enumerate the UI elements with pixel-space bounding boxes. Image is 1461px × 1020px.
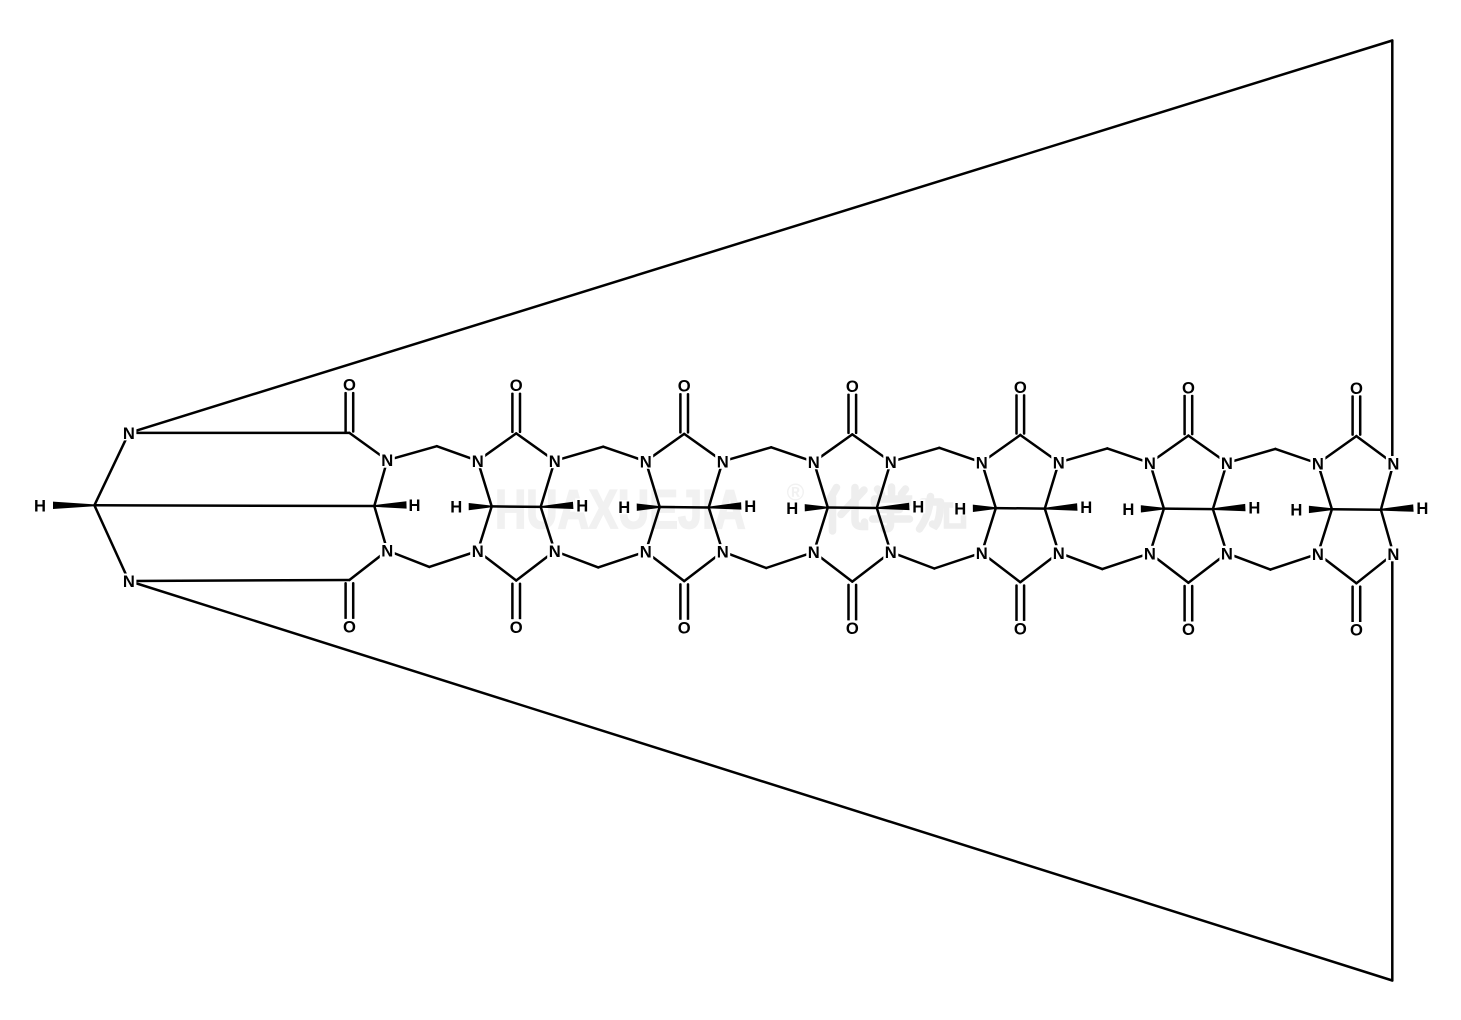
atom H leftmost [33, 496, 47, 515]
atom N3ul [638, 452, 653, 471]
bond C5b-N5ur [1045, 462, 1059, 508]
svg-text:N: N [1144, 544, 1156, 563]
svg-text:N: N [1221, 454, 1233, 473]
bond N7ll-C7b [1318, 554, 1357, 584]
atom N4ur [883, 453, 898, 472]
methylene bridge N3ur-CH2-N4ul (top) [723, 447, 772, 461]
atom H4l [785, 499, 799, 518]
atom O2b [509, 618, 524, 637]
methylene bridge N2ur-CH2-N3ul (top) [555, 447, 604, 461]
bond C3a-N3ll [646, 507, 660, 552]
atom O7t [1349, 379, 1364, 398]
svg-text:O: O [846, 377, 859, 396]
bond C6b-N6ur [1213, 463, 1227, 509]
svg-text:H: H [744, 497, 756, 516]
bond N3ul-C3t [646, 434, 685, 461]
atom N5ur [1051, 453, 1066, 472]
bond N4ur-C4t [852, 434, 891, 461]
bond N6ll-C6b [1150, 553, 1189, 583]
svg-text:N: N [885, 543, 897, 562]
atom O1t [342, 375, 357, 394]
bond C2b-N2ur [541, 461, 555, 507]
atom N6ll [1142, 544, 1157, 563]
atom N2ll [470, 542, 485, 561]
atom N2ur [547, 452, 562, 471]
svg-text:N: N [1312, 455, 1324, 474]
double bond C6b=O6b [1183, 586, 1186, 621]
svg-text:N: N [549, 542, 561, 561]
bond N4ll-C4b [814, 552, 853, 582]
bond N7ur-C7t [1356, 436, 1393, 463]
atom H4r [911, 498, 925, 517]
atom O6b [1181, 620, 1196, 639]
bond N7ul-C7t [1318, 436, 1357, 463]
double bond C4b=O4b [847, 585, 850, 620]
bond N3ur-C3t [684, 434, 723, 461]
wedge bond C4b-H (right stereo H) [877, 503, 910, 510]
svg-text:N: N [1387, 545, 1399, 564]
svg-text:H: H [576, 496, 588, 515]
svg-text:O: O [1014, 620, 1027, 639]
bond C4b-N4lr [877, 508, 891, 552]
bond C1b(CH)-N1bu [374, 460, 387, 506]
svg-text:H: H [1122, 500, 1134, 519]
bond C2b-N2lr [541, 507, 555, 551]
bond C6a-N6ll [1150, 509, 1164, 554]
methylene bridge N2lr-CH2-N3ll (bottom) [555, 551, 599, 567]
svg-text:N: N [976, 544, 988, 563]
svg-text:N: N [472, 452, 484, 471]
svg-text:N: N [549, 452, 561, 471]
svg-text:H: H [409, 496, 421, 515]
atom H1b [408, 496, 422, 515]
bond N2ll-C2b [478, 551, 517, 581]
double bond C7t=O7t [1351, 396, 1354, 434]
atom N7lr [1386, 545, 1401, 564]
svg-text:O: O [1350, 379, 1363, 398]
atom H6l [1121, 500, 1135, 519]
wedge bond C6a-H (left stereo H) [1141, 505, 1164, 512]
bond C3a-C3b (CH-CH) [660, 506, 709, 509]
atom O4t [845, 377, 860, 396]
bond C5a-C5b (CH-CH) [996, 507, 1045, 510]
bond C4a-N4ll [814, 508, 828, 553]
svg-text:O: O [846, 619, 859, 638]
svg-text:O: O [343, 375, 356, 394]
bond N2lr-C2b [516, 551, 555, 581]
atom N2lr [547, 542, 562, 561]
bond C1b-N1bl [349, 551, 387, 581]
bond N7lr-C7b [1356, 554, 1393, 584]
svg-text:N: N [123, 424, 135, 443]
atom H2r [575, 496, 589, 515]
bond C5b-N5lr [1045, 509, 1059, 553]
atom N3lr [715, 543, 730, 562]
wedge bond C7a-H (left stereo H) [1309, 506, 1332, 513]
bond N3ll-C3b [646, 552, 685, 582]
svg-text:O: O [510, 376, 523, 395]
bond C6a-C6b (CH-CH) [1164, 507, 1213, 510]
wedge bond C5b-H (right stereo H) [1045, 503, 1078, 510]
bond N1u-C1t (long top bond) [129, 432, 350, 435]
atom N6ur [1219, 454, 1234, 473]
bond C1a-C1b (long central CH-CH bond) [94, 504, 374, 507]
svg-text:N: N [381, 542, 393, 561]
bond bottom-right corner up to N7lr (right border, lower segment) [1391, 554, 1394, 981]
bond C2a-C2b (CH-CH) [492, 505, 541, 508]
atom N7ur [1386, 455, 1401, 474]
double bond C5t=O5t [1015, 395, 1018, 433]
svg-text:H: H [1416, 499, 1428, 518]
wedge bond C2a-H (left stereo H) [469, 503, 492, 510]
methylene bridge N1bu-CH2-N2ul (top) [387, 446, 437, 460]
bond C7b-N7lr [1381, 510, 1394, 554]
atom N1bl [380, 542, 395, 561]
atom O2t [509, 376, 524, 395]
svg-text:N: N [1144, 454, 1156, 473]
methylene bridge N3lr-CH2-N4ll (bottom) [723, 552, 767, 568]
double bond C2t=O2t [511, 394, 514, 432]
svg-text:N: N [123, 572, 135, 591]
atom O5t [1013, 378, 1028, 397]
svg-text:N: N [717, 452, 729, 471]
bond C2a-N2ll [478, 506, 492, 551]
bond C5a-N5ul [982, 462, 996, 508]
atom N1u [121, 424, 136, 443]
bond N2ul-C2t [478, 433, 517, 460]
bond C7a-N7ll [1318, 509, 1332, 554]
wedge bond C3b-H (right stereo H) [709, 502, 742, 509]
atom H5r [1079, 498, 1093, 517]
atom H7r [1415, 499, 1429, 518]
methylene bridge N6lr-CH2-N7ll (bottom) [1227, 553, 1271, 569]
svg-text:N: N [976, 453, 988, 472]
bond C6b-N6lr [1213, 509, 1227, 553]
atom N4ul [806, 453, 821, 472]
double bond C3t=O3t [679, 394, 682, 432]
bond C1a-N1u [94, 433, 128, 505]
bond N1u to top-right corner (wrap-around methylene arm, top slant) [129, 41, 1392, 433]
methylene bridge N6ur-CH2-N7ul (top) [1227, 449, 1276, 463]
bond N4ul-C4t [814, 434, 853, 461]
double bond C7b=O7b [1351, 587, 1354, 622]
methylene bridge N5lr-CH2-N6ll (bottom) [1059, 553, 1103, 569]
atom H6r [1247, 499, 1261, 518]
svg-text:N: N [717, 543, 729, 562]
atom O5b [1013, 620, 1028, 639]
wedge bond C7b-H (right stereo H) [1381, 504, 1414, 511]
methylene bridge N4ur-CH2-N5ul (top) [891, 448, 940, 462]
bond C3a-N3ul [646, 461, 660, 507]
svg-text:N: N [885, 453, 897, 472]
bond top-right corner down to N7ur (right border, upper segment) [1391, 41, 1394, 464]
svg-text:O: O [343, 617, 356, 636]
svg-text:N: N [1312, 545, 1324, 564]
svg-text:H: H [786, 499, 798, 518]
bond C1b(CH)-N1bl [374, 506, 387, 551]
methylene bridge N5ur-CH2-N6ul (top) [1059, 448, 1108, 462]
atom O7b [1349, 621, 1364, 640]
atom O1b [342, 617, 357, 636]
bond C1t-N1bu [349, 433, 387, 460]
watermark HUAXUEJIA (R) hua-xue-jia, light gray [495, 479, 805, 540]
svg-text:N: N [808, 453, 820, 472]
bond C6a-N6ul [1150, 463, 1164, 509]
atom O3b [677, 618, 692, 637]
bond N3lr-C3b [684, 552, 723, 582]
bond C4b-N4ur [877, 462, 891, 508]
atom N4ll [806, 543, 821, 562]
bond N5lr-C5b [1020, 553, 1059, 583]
double bond C3b=O3b [679, 584, 682, 619]
double bond C4t=O4t [847, 395, 850, 433]
atom N6ul [1142, 454, 1157, 473]
atom O3t [677, 377, 692, 396]
bond C5a-N5ll [982, 508, 996, 553]
svg-text:H: H [450, 498, 462, 517]
svg-text:N: N [1053, 544, 1065, 563]
bond N6ul-C6t [1150, 436, 1189, 463]
wedge bond C4a-H (left stereo H) [805, 504, 828, 511]
svg-text:H: H [954, 499, 966, 518]
double bond C2b=O2b [511, 584, 514, 619]
atom H3r [743, 497, 757, 516]
svg-text:H: H [912, 498, 924, 517]
bond C7a-N7ul [1318, 464, 1332, 510]
svg-text:O: O [678, 618, 691, 637]
svg-text:O: O [1182, 620, 1195, 639]
double bond C5b=O5b [1015, 586, 1018, 621]
methylene bridge N1bl-CH2-N2ll (bottom) [387, 551, 429, 567]
bond N6ur-C6t [1188, 436, 1227, 463]
bond N4lr-C4b [852, 552, 891, 582]
svg-text:N: N [1387, 455, 1399, 474]
svg-text:O: O [1350, 621, 1363, 640]
svg-text:O: O [1182, 378, 1195, 397]
bond N5ul-C5t [982, 435, 1021, 462]
wedge bond C1a-H (leftmost stereo H) [53, 502, 94, 509]
bond C7a-C7b (CH-CH) [1332, 508, 1381, 511]
atom N5ll [974, 544, 989, 563]
bond C7b-N7ur [1381, 464, 1394, 510]
atom O6t [1181, 378, 1196, 397]
double bond C1t=O1t [344, 393, 347, 432]
atom N5ul [974, 453, 989, 472]
bond C4a-C4b (CH-CH) [828, 506, 877, 509]
bond N5ur-C5t [1020, 435, 1059, 462]
bond N2ur-C2t [516, 433, 555, 460]
double bond C6t=O6t [1183, 396, 1186, 434]
bond C2a-N2ul [478, 461, 492, 507]
double bond C1b=O1b [344, 583, 347, 618]
atom N3ll [638, 543, 653, 562]
atom N7ul [1310, 455, 1325, 474]
svg-text:H: H [1248, 499, 1260, 518]
svg-text:N: N [1221, 544, 1233, 563]
svg-text:H: H [34, 496, 46, 515]
wedge bond C3a-H (left stereo H) [637, 504, 660, 511]
bond N6lr-C6b [1188, 553, 1227, 583]
atom N1bu [380, 451, 395, 470]
atom N7ll [1310, 545, 1325, 564]
atom N5lr [1051, 544, 1066, 563]
atom H3l [617, 498, 631, 517]
bond C3b-N3lr [709, 508, 723, 552]
bond N5ll-C5b [982, 553, 1021, 583]
atom H5l [953, 499, 967, 518]
bond N1l-C1b (long bottom bond) [129, 580, 350, 581]
atom N1l [121, 572, 136, 591]
atom N4lr [883, 543, 898, 562]
atom H2l [449, 498, 463, 517]
wedge bond C5a-H (left stereo H) [973, 505, 996, 512]
svg-text:O: O [510, 618, 523, 637]
svg-text:N: N [640, 543, 652, 562]
svg-text:H: H [1080, 498, 1092, 517]
svg-text:O: O [678, 377, 691, 396]
atom N6lr [1219, 544, 1234, 563]
methylene bridge N4lr-CH2-N5ll (bottom) [891, 552, 935, 568]
wedge bond C6b-H (right stereo H) [1213, 504, 1246, 511]
svg-text:N: N [381, 451, 393, 470]
svg-text:N: N [472, 542, 484, 561]
atom H7l [1289, 501, 1303, 520]
svg-text:N: N [808, 543, 820, 562]
wedge bond C2b-H (right stereo H) [541, 502, 574, 509]
wedge bond C1b-H [374, 501, 406, 508]
svg-text:N: N [640, 452, 652, 471]
svg-text:N: N [1053, 453, 1065, 472]
atom N3ur [715, 452, 730, 471]
svg-text:H: H [1290, 501, 1302, 520]
bond N1l to bottom-right corner (wrap-around methylene arm, bottom slant) [129, 581, 1392, 981]
atom O4b [845, 619, 860, 638]
atom N2ul [470, 452, 485, 471]
svg-text:H: H [618, 498, 630, 517]
bond C4a-N4ul [814, 462, 828, 508]
bond C3b-N3ur [709, 461, 723, 507]
bond C1a-N1l [94, 505, 128, 581]
svg-text:O: O [1014, 378, 1027, 397]
